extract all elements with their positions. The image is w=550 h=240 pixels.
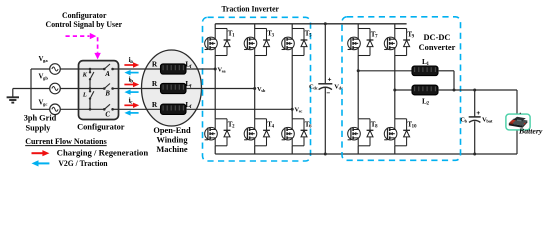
transistor T9 [384, 29, 410, 56]
svg-text:3ph Grid: 3ph Grid [24, 114, 57, 123]
open-end winding machine body [142, 50, 202, 126]
wire leg1 to L1 [358, 70, 412, 72]
wire machine phase c [119, 108, 161, 110]
arrow ib traction (cyan) [130, 91, 139, 93]
wire grid phase b left [31, 88, 50, 90]
node dc-dc leg1 mid [357, 69, 360, 72]
svg-text:C: C [105, 112, 110, 119]
svg-text:A: A [104, 71, 110, 78]
svg-text:T10: T10 [407, 120, 417, 129]
transistor T5 [282, 29, 308, 56]
svg-text:Battery: Battery [518, 126, 543, 135]
svg-text:Vsb: Vsb [257, 86, 266, 93]
switch C [104, 104, 110, 109]
switch B [104, 84, 110, 89]
node dc-link top [324, 22, 327, 25]
svg-text:Supply: Supply [26, 124, 52, 133]
configurator box [79, 61, 119, 120]
svg-text:DC-DC: DC-DC [424, 33, 451, 42]
svg-text:Vgc: Vgc [39, 100, 48, 107]
wire battery branch [516, 90, 518, 154]
svg-text:−: − [326, 90, 330, 97]
svg-text:Cb: Cb [460, 117, 467, 124]
wire configurator vertical link [89, 69, 91, 72]
node Cb top [473, 89, 476, 92]
svg-text:Open-End: Open-End [153, 126, 191, 135]
wire inverter leg 3 [291, 56, 293, 119]
ground [7, 89, 31, 103]
svg-text:T4: T4 [267, 120, 274, 129]
node Vsa [214, 68, 217, 71]
wire leg2 to L2 [395, 89, 412, 91]
AC source Vga [50, 64, 61, 75]
wire grid phase a left [31, 68, 50, 70]
transistor T4 [244, 119, 270, 146]
svg-text:R: R [152, 100, 158, 109]
battery icon [506, 113, 530, 130]
svg-text:+: + [328, 77, 332, 84]
svg-text:Cdc: Cdc [309, 83, 318, 90]
svg-text:T1: T1 [228, 30, 235, 39]
svg-text:ia: ia [129, 55, 134, 65]
node Vsb [253, 87, 256, 90]
svg-text:Current Flow Notations: Current Flow Notations [25, 137, 107, 146]
capacitor Cb [469, 117, 481, 123]
wire inverter leg 2 [254, 56, 256, 119]
svg-text:Converter: Converter [419, 43, 456, 52]
svg-text:Vga: Vga [39, 56, 49, 63]
node Cb bottom [473, 153, 476, 156]
wire grid phase c right [60, 108, 78, 110]
arrow ib charging (red) [124, 84, 134, 86]
wire dc-dc leg 1 [357, 56, 359, 119]
node phase A / vertical junction [89, 68, 92, 71]
arrow ia traction (cyan) [130, 72, 139, 74]
wire positive dc bus [215, 23, 406, 25]
control signal dashed arrow horizontal [66, 35, 90, 37]
stator winding phase c [161, 104, 187, 114]
legend arrow V2G (cyan) [38, 162, 50, 164]
control signal dashed arrow vertical [97, 37, 99, 53]
svg-text:K: K [82, 72, 88, 79]
wire dc-dc leg 2 [394, 56, 396, 119]
wire inverter leg 1 [214, 56, 216, 119]
node inductor join [453, 89, 456, 92]
transistor T6 [282, 119, 308, 146]
capacitor Cdc [318, 84, 332, 90]
svg-text:Charging / Regeneration: Charging / Regeneration [57, 149, 149, 158]
transistor T1 [205, 29, 231, 56]
svg-text:L2: L2 [422, 96, 430, 106]
arrow ic charging (red) [124, 104, 134, 106]
transistor T8 [348, 119, 374, 146]
svg-text:L: L [82, 91, 87, 98]
svg-text:Control Signal by User: Control Signal by User [46, 20, 123, 29]
wire L2 output to battery [438, 89, 517, 91]
wire grid phase b right [60, 88, 78, 90]
inductor L2 [412, 85, 438, 95]
wire dc-link tap [324, 24, 326, 84]
node Vsc [291, 108, 294, 111]
svg-text:R: R [152, 60, 158, 69]
svg-text:T9: T9 [407, 31, 414, 40]
wire phase to leg (sb) [186, 88, 255, 90]
svg-text:Machine: Machine [156, 145, 187, 154]
wire configurator phase A [79, 68, 105, 70]
transistor T7 [348, 29, 374, 56]
svg-text:ib: ib [129, 75, 134, 85]
svg-text:Configurator: Configurator [62, 11, 107, 20]
stator winding phase b [161, 83, 187, 93]
wire machine phase b [119, 88, 161, 90]
wire phase to leg (sc) [186, 108, 292, 110]
svg-text:T5: T5 [305, 30, 312, 39]
node dc-dc leg2 mid [393, 89, 396, 92]
svg-text:T7: T7 [371, 31, 378, 40]
wire phase to leg (sa) [186, 68, 215, 70]
dc-dc converter dashed box [342, 17, 461, 161]
svg-text:L1: L1 [422, 57, 430, 67]
AC source Vgc [50, 104, 61, 115]
svg-text:Traction Inverter: Traction Inverter [221, 4, 279, 14]
svg-text:+: + [476, 110, 480, 117]
svg-text:R: R [152, 79, 158, 88]
transistor T2 [205, 119, 231, 146]
svg-text:T8: T8 [371, 120, 378, 129]
AC source Vgb [50, 83, 61, 94]
capacitor Cb tap [474, 90, 476, 117]
legend arrow charging (red) [32, 152, 44, 154]
svg-text:ic: ic [129, 95, 134, 105]
svg-text:Vsc: Vsc [295, 107, 303, 114]
node dc-link bottom [324, 153, 327, 156]
inductor L1 [412, 66, 438, 76]
wire configurator phase C [79, 108, 105, 110]
wire grid neutral bus [30, 69, 32, 109]
svg-text:T2: T2 [228, 120, 235, 129]
transistor T10 [384, 119, 410, 146]
svg-text:V2G / Traction: V2G / Traction [58, 159, 108, 168]
svg-text:Winding: Winding [156, 136, 188, 145]
arrow ic traction (cyan) [130, 112, 139, 114]
wire L1 output [438, 70, 454, 72]
traction inverter dashed box [203, 17, 311, 161]
wire negative dc bus [215, 153, 517, 155]
wire grid phase a right [60, 68, 78, 70]
wire grid phase c left [31, 108, 50, 110]
svg-text:Configurator: Configurator [77, 122, 125, 131]
svg-text:T3: T3 [267, 30, 274, 39]
wire configurator phase B [79, 88, 105, 90]
svg-text:B: B [104, 91, 110, 98]
stator winding phase a [161, 64, 187, 74]
switch K [90, 72, 94, 79]
wire machine phase a [119, 68, 161, 70]
svg-text:Vgb: Vgb [39, 74, 49, 81]
transistor T3 [244, 29, 270, 56]
switch L [90, 91, 94, 98]
switch A [104, 64, 110, 69]
svg-text:Vbat: Vbat [482, 117, 493, 124]
arrow ia charging (red) [124, 64, 134, 66]
svg-text:Vsa: Vsa [218, 66, 227, 73]
